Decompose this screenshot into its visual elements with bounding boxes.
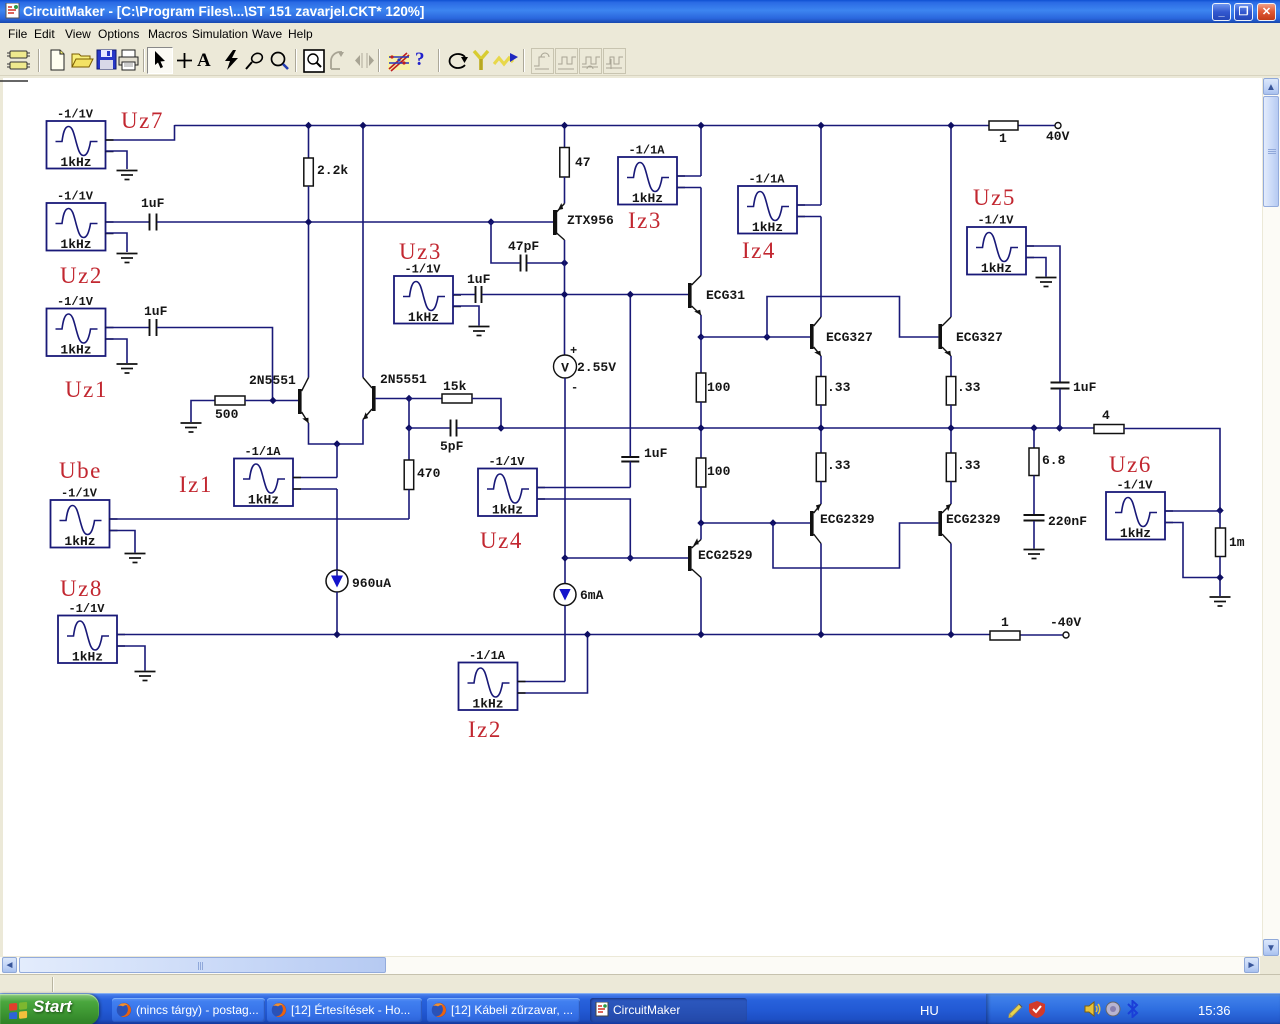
svg-text:47: 47	[575, 155, 591, 170]
svg-text:Uz5: Uz5	[973, 185, 1016, 210]
node top rail junction x=564.5	[561, 122, 568, 129]
wire Ube ground lead	[110, 531, 135, 553]
wire Uz1 output to C2	[106, 327, 149, 329]
svg-text:1uF: 1uF	[467, 272, 491, 287]
svg-text:Uz1: Uz1	[65, 377, 108, 402]
wire bottom -rail	[117, 634, 990, 636]
svg-text:2.55V: 2.55V	[577, 360, 616, 375]
svg-text:.33: .33	[827, 380, 851, 395]
wire node wire Uz2/2.2k/ZTX base	[157, 221, 491, 223]
menu bar	[0, 23, 1280, 45]
wire 500 left lead to ground	[191, 401, 215, 423]
svg-text:6mA: 6mA	[580, 588, 604, 603]
capacitor C7 1uF	[1051, 383, 1070, 389]
node top rail junction x=821	[817, 122, 824, 129]
svg-text:.33: .33	[957, 458, 981, 473]
capacitor C2 1uF (Uz1 input)	[150, 319, 157, 336]
node driver collector node	[697, 519, 704, 526]
node load bottom junction	[1216, 574, 1223, 581]
svg-text:1kHz: 1kHz	[1120, 526, 1151, 541]
wire Iz4 to ECG327a collector	[820, 217, 822, 318]
svg-text:Uz4: Uz4	[480, 528, 523, 553]
transistor Q5 (ECG327)	[810, 317, 823, 358]
transistor Q3 PNP (ZTX956)	[553, 203, 565, 240]
transistor Q8 (ECG2329)	[938, 502, 953, 543]
transistor Q9 PNP (ECG2529)	[688, 538, 701, 577]
svg-text:V: V	[561, 361, 569, 376]
wire Uz6 pin1 wire	[1165, 510, 1220, 512]
svg-text:Uz7: Uz7	[121, 108, 164, 133]
window title bar	[0, 0, 1280, 23]
wire emitter bus to Iz1 pin1	[336, 444, 338, 478]
resistor R 4	[1094, 425, 1124, 434]
wire Q2 base wire	[376, 398, 409, 400]
wire ECG327b collector to top rail	[950, 125, 952, 317]
wire ECG2529 emitter lead	[700, 523, 702, 540]
wire C7 bottom lead	[1059, 389, 1061, 428]
svg-text:2.2k: 2.2k	[317, 163, 348, 178]
ground zobel ground	[1024, 550, 1045, 559]
wire wire 2.2k node to Q1 collector	[308, 222, 310, 378]
wire Uz3 ground lead	[453, 306, 479, 326]
resistor R 100 (lower)	[696, 458, 706, 487]
node Q2 base junction	[405, 395, 412, 402]
wire Uz6 pin2 wire	[1165, 523, 1220, 578]
wire Iz4 pin2 stub wire	[797, 216, 821, 218]
wire ECG2529 collector to bottom rail	[700, 578, 702, 635]
svg-text:Iz1: Iz1	[179, 472, 213, 497]
svg-text:40V: 40V	[1046, 129, 1070, 144]
source Iz3 (sine current source)	[618, 144, 685, 207]
wire Uz2 output to C1	[106, 221, 149, 223]
wire Iz3 to ECG31 collector	[700, 188, 702, 276]
wire Uz2 ground lead	[106, 233, 127, 252]
svg-text:220nF: 220nF	[1048, 514, 1087, 529]
ground Ube ground	[125, 554, 146, 563]
node top rail junction x=951	[947, 122, 954, 129]
toolbar	[0, 45, 1280, 76]
wire I1 to bottom rail	[336, 592, 338, 635]
source Uz6 (sine voltage source)	[1106, 479, 1173, 542]
source Iz1 (sine current source)	[234, 445, 301, 508]
svg-text:100: 100	[707, 380, 731, 395]
source Uz4 (sine voltage source)	[478, 455, 545, 518]
wire 100a to 100b	[700, 402, 702, 458]
node y428 net junction x=1059.5	[1056, 424, 1063, 431]
node ECG31 emitter node	[697, 333, 704, 340]
node 2.2k bottom junction	[305, 218, 312, 225]
wire 15k right lead down to fb node	[472, 399, 501, 429]
node Uz3 node junction	[561, 291, 568, 298]
current source I2 6mA	[554, 584, 576, 606]
taskbar	[0, 993, 1280, 1024]
svg-text:-1/1V: -1/1V	[977, 214, 1014, 228]
wire Iz1 pin2 stub	[294, 488, 337, 490]
node y428 net junction x=1034	[1030, 424, 1037, 431]
vertical scrollbar	[1263, 78, 1280, 956]
svg-text:1m: 1m	[1229, 535, 1245, 550]
wire 47 top lead	[564, 125, 566, 148]
node top rail junction x=363	[359, 122, 366, 129]
wire 5pF left wire	[409, 427, 450, 429]
wire voltmeter to 6mA source	[564, 378, 566, 583]
svg-text:-1/1A: -1/1A	[748, 173, 785, 187]
source Uz5 (sine voltage source)	[967, 214, 1034, 277]
wire Uz8 ground lead	[117, 646, 145, 671]
resistor R .33 (b)	[946, 377, 956, 406]
svg-text:-1/1V: -1/1V	[68, 602, 105, 616]
svg-text:1uF: 1uF	[144, 304, 168, 319]
svg-text:Ube: Ube	[59, 458, 102, 483]
svg-text:5pF: 5pF	[440, 439, 464, 454]
source Iz2 (sine current source)	[459, 649, 526, 712]
wire 220nF to ground	[1033, 521, 1035, 549]
node bottom rail junction x=337	[333, 631, 340, 638]
wire 47 bottom lead	[564, 177, 566, 204]
ground Uz7 ground	[117, 171, 138, 180]
terminal -40V	[1063, 632, 1069, 638]
node y428 net junction x=701	[697, 424, 704, 431]
source Ube (sine voltage source)	[51, 487, 118, 550]
svg-text:100: 100	[707, 464, 731, 479]
wire emitter bus	[309, 420, 364, 445]
svg-text:.33: .33	[957, 380, 981, 395]
node load top junction	[1216, 507, 1223, 514]
wire Uz4 pin2 wire to base node	[537, 499, 630, 558]
wire .33c to ECG2329a emitter	[820, 482, 822, 505]
source Uz1 (sine voltage source)	[47, 295, 114, 358]
wire Iz1 pin2 to I1 source	[336, 489, 338, 570]
current source I1 960uA	[326, 570, 348, 592]
svg-text:ECG327: ECG327	[956, 330, 1003, 345]
resistor R .33 (d)	[946, 453, 956, 482]
node bottom rail junction x=821	[817, 631, 824, 638]
wire ECG327a emitter lead	[820, 356, 822, 377]
wire Iz4 pin1 stub wire	[797, 204, 821, 206]
wire Iz4 to top rail	[820, 125, 822, 205]
svg-text:960uA: 960uA	[352, 576, 391, 591]
wire 2.2k bottom lead	[308, 186, 310, 222]
resistor R 47	[560, 148, 570, 178]
svg-text:ECG2329: ECG2329	[946, 512, 1001, 527]
svg-text:15k: 15k	[443, 379, 467, 394]
wire R4 to load node	[1124, 429, 1220, 511]
node bottom rail junction x=587.5	[584, 631, 591, 638]
terminal +40V	[1055, 123, 1061, 129]
resistor R .33 (c)	[816, 453, 826, 482]
svg-text:ECG2329: ECG2329	[820, 512, 875, 527]
node Q1 base node junction	[269, 397, 276, 404]
svg-text:-1/1V: -1/1V	[1116, 479, 1153, 493]
svg-text:1kHz: 1kHz	[981, 261, 1012, 276]
canvas top edge remnant	[0, 80, 28, 82]
node C6 junction	[627, 291, 634, 298]
node y428 net junction x=821	[817, 424, 824, 431]
svg-text:-1/1V: -1/1V	[488, 455, 525, 469]
svg-text:Iz4: Iz4	[742, 238, 776, 263]
svg-text:4: 4	[1102, 408, 1110, 423]
svg-text:ECG2529: ECG2529	[698, 548, 753, 563]
svg-text:-: -	[571, 381, 578, 395]
resistor R 2.2k	[304, 158, 314, 186]
node 47pF junction	[561, 259, 568, 266]
source Uz2 (sine voltage source)	[47, 190, 114, 253]
svg-text:Iz2: Iz2	[468, 717, 502, 742]
svg-text:+: +	[570, 344, 577, 358]
wire 1m top lead	[1219, 511, 1221, 529]
wire 47pF right wire	[527, 262, 565, 264]
svg-text:Uz8: Uz8	[60, 576, 103, 601]
resistor R 470	[404, 460, 414, 490]
wire Uz4 pin1 wire	[537, 487, 630, 489]
wire C6 bottom lead	[629, 462, 631, 488]
svg-text:.33: .33	[827, 458, 851, 473]
svg-text:1kHz: 1kHz	[64, 534, 95, 549]
svg-text:Uz2: Uz2	[60, 263, 103, 288]
wire Uz1 ground lead	[106, 339, 127, 363]
svg-text:1: 1	[999, 131, 1007, 146]
node fb node left junction	[405, 424, 412, 431]
wire Iz2 pin2 to bottom rail	[518, 635, 588, 694]
status bar	[0, 974, 1280, 993]
svg-text:1kHz: 1kHz	[752, 220, 783, 235]
wire ECG2329b collector to bottom rail	[950, 544, 952, 635]
wire .33d to ECG2329b emitter	[950, 482, 952, 505]
svg-text:Uz3: Uz3	[399, 239, 442, 264]
ground Uz1 ground	[117, 364, 138, 373]
wire Q2 base to fb node	[408, 399, 410, 429]
wire 47pF left path	[491, 222, 520, 263]
svg-text:1kHz: 1kHz	[632, 191, 663, 206]
wire ECG2529 base wire	[565, 557, 688, 559]
svg-text:1uF: 1uF	[1073, 380, 1097, 395]
node y428 net junction x=951	[947, 424, 954, 431]
resistor R 1m	[1216, 528, 1226, 557]
node Uz4 junction on base wire	[627, 554, 634, 561]
transistor Q2 (2N5551)	[361, 378, 376, 422]
svg-text:ECG31: ECG31	[706, 288, 745, 303]
resistor R 15k	[442, 394, 472, 403]
svg-text:1kHz: 1kHz	[492, 503, 523, 518]
svg-text:-1/1A: -1/1A	[628, 144, 665, 158]
wire 1m bottom lead	[1219, 557, 1221, 597]
svg-text:500: 500	[215, 407, 239, 422]
svg-text:1uF: 1uF	[141, 196, 165, 211]
ground Uz8 ground	[135, 672, 156, 681]
transistor Q6 (ECG327)	[938, 317, 953, 358]
wire wire to ECG2329a base	[701, 522, 810, 524]
wire Iz3 to top rail	[700, 125, 702, 176]
resistor R .33 (a)	[816, 377, 826, 406]
wire Q1 base wire	[245, 400, 298, 402]
svg-text:1kHz: 1kHz	[60, 343, 91, 358]
wire 2.2k top lead	[308, 125, 310, 158]
wire Iz1 pin1 stub	[294, 477, 337, 479]
node driver base node junction	[561, 554, 568, 561]
wire ECG2329a collector to bottom rail	[820, 544, 822, 635]
wire ZTX956 base wire	[491, 221, 553, 223]
wire Uz7 ground lead	[106, 151, 127, 169]
svg-text:Uz6: Uz6	[1109, 452, 1152, 477]
node bottom rail junction x=701	[697, 631, 704, 638]
wire detour wire to ECG327b base	[767, 297, 938, 338]
svg-text:1kHz: 1kHz	[248, 493, 279, 508]
svg-text:-1/1A: -1/1A	[469, 649, 506, 663]
svg-text:1: 1	[1001, 615, 1009, 630]
wire 100a top lead	[700, 337, 702, 373]
resistor R 6.8	[1029, 448, 1039, 476]
wire 470 top lead	[408, 428, 410, 460]
svg-text:470: 470	[417, 466, 441, 481]
source Uz7 (sine voltage source)	[47, 108, 114, 171]
svg-text:1kHz: 1kHz	[60, 237, 91, 252]
wire Uz5 ground lead	[1026, 258, 1046, 277]
wire Uz3 node wire to ECG31 base	[482, 294, 688, 296]
wire Uz5 pin1 to C7	[1026, 246, 1060, 382]
wire Iz2 pin1 stub wire	[518, 681, 566, 683]
svg-text:ECG327: ECG327	[826, 330, 873, 345]
wire Uz3 output to C4	[453, 294, 475, 296]
transistor Q4 (ECG31)	[688, 276, 703, 317]
resistor R 100 (upper)	[696, 373, 706, 402]
wire Iz3 pin2 stub wire	[677, 187, 701, 189]
wire 470 bottom lead	[408, 490, 410, 520]
wire ZTX collector to voltmeter	[564, 240, 566, 355]
wire ECG31 emitter lead	[700, 315, 702, 337]
wire between .33a and .33c	[820, 405, 822, 453]
svg-text:-1/1V: -1/1V	[57, 190, 94, 204]
wire output net y428	[501, 427, 1094, 429]
svg-text:Iz3: Iz3	[628, 208, 662, 233]
svg-text:-1/1A: -1/1A	[244, 445, 281, 459]
capacitor C4 1uF (Uz3)	[476, 286, 482, 303]
wire 15k left lead	[409, 398, 442, 400]
node bottom rail junction x=951	[947, 631, 954, 638]
svg-text:2N5551: 2N5551	[249, 373, 296, 388]
voltmeter V 2.55V	[554, 344, 579, 395]
ground Uz5 ground	[1036, 278, 1057, 287]
svg-text:-1/1V: -1/1V	[404, 263, 441, 277]
node ZTX base junction	[487, 218, 494, 225]
wire top +rail left section	[175, 125, 990, 127]
source Uz3 (sine voltage source)	[394, 263, 461, 326]
node lower base bus junction	[769, 519, 776, 526]
node top rail junction x=701	[697, 122, 704, 129]
svg-text:-40V: -40V	[1050, 615, 1081, 630]
ground Uz2 ground	[117, 254, 138, 263]
wire 5pF right wire	[457, 427, 501, 429]
svg-text:2N5551: 2N5551	[380, 372, 427, 387]
svg-text:ZTX956: ZTX956	[567, 213, 614, 228]
node emitter bus junction	[333, 440, 340, 447]
svg-text:1kHz: 1kHz	[60, 155, 91, 170]
wire top rail to 40V terminal	[1018, 125, 1055, 127]
capacitor C6 1uF	[621, 457, 639, 462]
wire bottom rail to -40V terminal	[1020, 634, 1063, 636]
transistor Q1 (2N5551)	[298, 378, 311, 425]
wire Uz7 output to top rail	[106, 125, 175, 140]
source Iz4 (sine current source)	[738, 173, 805, 236]
node top rail junction x=308.5	[305, 122, 312, 129]
svg-text:1uF: 1uF	[644, 446, 668, 461]
capacitor C3 5pF	[451, 420, 457, 437]
wire C6 top lead from Uz3 node	[629, 295, 631, 458]
node fb junction	[497, 424, 504, 431]
ground 500 ground	[181, 423, 202, 432]
wire 100b bottom lead	[700, 487, 702, 523]
wire between .33b and .33d	[950, 405, 952, 453]
ground Uz3 ground	[469, 327, 490, 336]
horizontal scrollbar	[0, 957, 1260, 974]
svg-text:6.8: 6.8	[1042, 453, 1066, 468]
wire Iz3 pin1 stub wire	[677, 175, 701, 177]
wire Ube wire to 470 bottom	[110, 518, 409, 520]
svg-text:1kHz: 1kHz	[408, 310, 439, 325]
source Uz8 (sine voltage source)	[58, 602, 125, 665]
svg-text:1kHz: 1kHz	[472, 697, 503, 712]
svg-text:-1/1V: -1/1V	[61, 487, 98, 501]
wire 6.8 to 220nF	[1033, 476, 1035, 516]
capacitor C8 220nF	[1024, 515, 1045, 521]
capacitor C1 1uF (Uz2 input)	[150, 214, 157, 231]
svg-text:1kHz: 1kHz	[72, 650, 103, 665]
ground load ground	[1210, 597, 1231, 606]
svg-text:-1/1V: -1/1V	[57, 108, 94, 122]
wire 6.8 top lead	[1033, 428, 1035, 448]
resistor R 1 (top)	[989, 121, 1018, 130]
wire 6mA to Iz2 pin1	[564, 606, 566, 682]
resistor R 1 (bottom)	[990, 631, 1020, 640]
wire Q2 collector to top rail	[362, 125, 364, 378]
transistor Q7 (ECG2329)	[810, 502, 823, 543]
svg-text:47pF: 47pF	[508, 239, 539, 254]
svg-text:-1/1V: -1/1V	[57, 295, 94, 309]
wire wire to ECG327a base	[701, 336, 810, 338]
capacitor C5 47pF	[521, 255, 527, 272]
resistor R 500	[215, 396, 245, 405]
wire ECG327b emitter lead	[950, 356, 952, 377]
wire routing wire to ECG2329b base	[773, 523, 938, 568]
wire Uz1 coupling to Q1 base node	[157, 328, 273, 401]
node base bus junction	[763, 333, 770, 340]
